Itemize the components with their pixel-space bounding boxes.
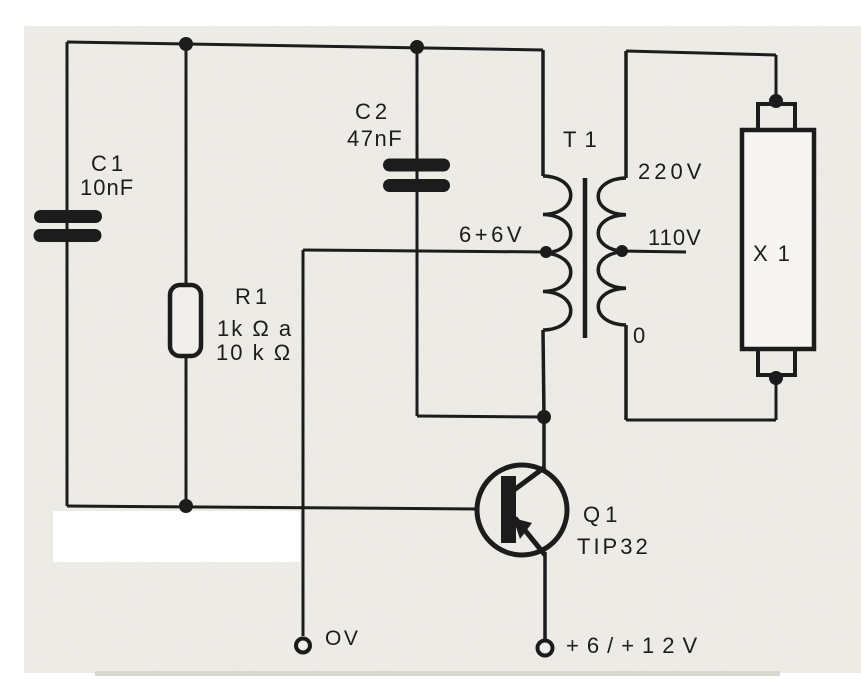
wire: primary top stem (541, 50, 545, 176)
wire: left vertical (C1 branch) (66, 42, 69, 506)
svg-text:R1: R1 (235, 284, 271, 309)
wire: 0V vertical (302, 250, 305, 636)
svg-text:+6/+12V: +6/+12V (566, 633, 705, 658)
wire: C2 vertical branch (416, 47, 419, 416)
white patch bottom-left (53, 511, 300, 562)
junction dot top at C2 (410, 40, 424, 54)
lamp X1 bottom cap (758, 349, 795, 375)
svg-text:Q1: Q1 (583, 502, 622, 527)
transformer T1 secondary winding (598, 178, 626, 325)
transistor Q1 base bar (501, 476, 516, 543)
transformer T1 primary winding (543, 176, 571, 330)
scan edge shadow bottom (95, 671, 780, 676)
junction dot primary center tap (540, 246, 552, 258)
wire: center tap horizontal (303, 250, 546, 252)
svg-text:C1: C1 (91, 151, 127, 176)
svg-text:1k Ω a: 1k Ω a (217, 316, 293, 341)
svg-text:TIP32: TIP32 (577, 534, 651, 559)
wire: lamp top lead (775, 55, 778, 102)
wire: emitter lead to terminal (543, 552, 547, 639)
svg-text:10 k Ω: 10 k Ω (216, 340, 292, 365)
wire: right loop top (626, 51, 776, 55)
wire: R1 bottom stem (185, 355, 188, 507)
capacitor C1 (40, 217, 96, 236)
svg-text:X1: X1 (753, 241, 800, 266)
wire: right loop bottom (626, 419, 776, 422)
wire: collector wire (542, 417, 546, 471)
transistor Q1 collector diagonal (514, 467, 545, 490)
capacitor C2 (390, 165, 444, 186)
wire: secondary top stem (624, 51, 628, 178)
svg-text:10nF: 10nF (80, 175, 134, 200)
wire: R1 top stem (185, 44, 188, 286)
svg-text:C2: C2 (355, 99, 391, 124)
svg-text:110V: 110V (648, 225, 702, 250)
wire: primary bottom stem to node (543, 330, 544, 417)
resistor R1 (170, 285, 201, 356)
junction dot lamp top (769, 94, 783, 108)
transistor Q1 emitter arrow (513, 518, 532, 539)
terminal +6/+12V (538, 641, 553, 656)
wire: lamp bottom lead (775, 378, 778, 420)
wire: base wire to Q1 (67, 506, 478, 509)
lamp X1 top cap (758, 104, 795, 130)
transistor Q1 emitter diagonal (515, 518, 545, 555)
svg-text:220V: 220V (638, 159, 705, 184)
svg-text:47nF: 47nF (347, 126, 403, 151)
junction dot collector node (537, 410, 551, 424)
wire: C2 bottom to collector node (417, 416, 544, 417)
wire: 110V tap stub (622, 251, 686, 252)
junction dot lamp bottom (769, 371, 783, 385)
wire: secondary bottom stem (624, 325, 628, 420)
svg-text:0: 0 (633, 323, 645, 348)
lamp X1 body (742, 130, 814, 349)
svg-text:T1: T1 (563, 127, 605, 152)
wire: main top bus (67, 42, 543, 50)
terminal 0V (296, 639, 310, 653)
svg-text:OV: OV (325, 627, 360, 650)
svg-text:6+6V: 6+6V (459, 222, 525, 247)
transformer T1 core (583, 178, 588, 338)
junction dot 110V tap (616, 245, 628, 257)
transistor Q1 circle (477, 465, 567, 555)
junction dot base wire / R1 (179, 499, 193, 513)
junction dot top at R1 (179, 37, 193, 51)
